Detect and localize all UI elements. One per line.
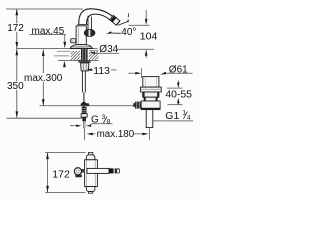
svg-text:172: 172 bbox=[7, 23, 24, 34]
arrow 104 top down bbox=[145, 19, 148, 25]
spout aerator tip bbox=[110, 15, 120, 25]
ball joint bbox=[81, 102, 86, 107]
waste collar bbox=[143, 92, 159, 97]
dimension 172 vertical line bbox=[16, 9, 18, 118]
dimension Ø61 bbox=[128, 68, 192, 78]
plan body bbox=[85, 160, 98, 187]
dimension 104 top ext line bbox=[129, 24, 150, 26]
svg-text:40-55: 40-55 bbox=[165, 89, 192, 100]
dimension max.300 line bbox=[42, 49, 44, 105]
arrow 172 top up bbox=[16, 9, 19, 15]
dimension 172 bottom bbox=[45, 153, 86, 193]
supply rod lower bbox=[83, 92, 84, 102]
arrow max.45 up bbox=[63, 61, 66, 67]
dimension 40-55 bbox=[167, 81, 183, 105]
svg-text:40°: 40° bbox=[121, 27, 136, 38]
joint ellipse bbox=[84, 29, 95, 36]
svg-text:max.45: max.45 bbox=[32, 26, 65, 37]
waste body bbox=[141, 101, 160, 110]
G3/8 pointer arrows bbox=[70, 125, 79, 127]
waste locknut ring bbox=[144, 97, 157, 101]
wire deck top line bbox=[16, 48, 97, 50]
plan bottom nub bbox=[88, 192, 92, 194]
dimension max.45 drop line bbox=[30, 34, 67, 36]
dimension 104 bottom ext line bbox=[117, 48, 154, 50]
plan bottom cap bbox=[86, 187, 95, 192]
hose threaded section bbox=[82, 107, 87, 114]
text G1 1/4 bbox=[165, 110, 191, 123]
lever post bbox=[88, 16, 91, 30]
washer bbox=[78, 60, 90, 62]
wire horizontal pop-up rod bbox=[40, 105, 136, 107]
svg-text:Ø61: Ø61 bbox=[169, 64, 188, 75]
waste flange bbox=[140, 87, 161, 92]
rod clamp bar bbox=[81, 103, 90, 106]
dimension G1 1/4 leader bbox=[163, 120, 193, 122]
svg-text:G1: G1 bbox=[165, 110, 179, 122]
arrow max.300 top up bbox=[42, 50, 45, 56]
plan top nub bbox=[88, 153, 92, 155]
faucet body bbox=[76, 24, 88, 44]
dimension 350 bottom extension line bbox=[7, 117, 83, 119]
deck hatch left bbox=[71, 51, 81, 60]
arrow 104 bottom up bbox=[145, 49, 148, 55]
dimension 40deg leader bbox=[111, 13, 130, 33]
deck hatch right bbox=[57, 51, 98, 60]
arrow 350 bottom down bbox=[16, 111, 19, 117]
arrow 350 top up bbox=[16, 49, 19, 55]
text 172 top bbox=[7, 23, 26, 34]
mounting nut bbox=[81, 63, 89, 71]
waste plug cylinder bbox=[143, 77, 159, 88]
plan left knob bbox=[74, 168, 84, 178]
plan top cap bbox=[86, 155, 95, 160]
dimension G3/8 leader underline bbox=[91, 123, 113, 125]
svg-text:max.180: max.180 bbox=[97, 129, 135, 140]
dimension 104 bottom tail bbox=[145, 55, 147, 59]
dimension Ø34 leader bbox=[93, 51, 120, 54]
arrow max.45 down bbox=[63, 42, 66, 48]
dimension 104 top tail bbox=[145, 10, 147, 20]
hose nut bbox=[81, 114, 87, 118]
waste tailpipe bbox=[146, 110, 153, 128]
arrowheads group bbox=[16, 9, 148, 118]
wire top extension line (faucet top level) bbox=[6, 8, 83, 10]
svg-text:350: 350 bbox=[7, 81, 24, 92]
plan spout bbox=[87, 168, 109, 173]
svg-text:113: 113 bbox=[93, 65, 110, 77]
wire deck bottom line bbox=[58, 59, 98, 61]
supply tube bbox=[82, 71, 85, 92]
pull rod knob bbox=[71, 39, 76, 43]
svg-text:172: 172 bbox=[52, 168, 70, 180]
dimension max.180 bbox=[83, 121, 149, 140]
G3/8 nipple bbox=[82, 117, 86, 121]
spout arch outer bbox=[79, 9, 113, 25]
dimension 113 leader bbox=[89, 69, 93, 71]
svg-text:104: 104 bbox=[140, 30, 158, 42]
text G 3/8 bbox=[91, 114, 111, 126]
svg-text:4: 4 bbox=[187, 115, 191, 122]
threaded shank bbox=[81, 49, 88, 61]
faucet base bbox=[70, 45, 92, 49]
text max.300 bbox=[24, 73, 64, 84]
svg-text:8: 8 bbox=[107, 119, 111, 126]
text 350 bbox=[7, 81, 26, 92]
arrow 172 bottom down bbox=[16, 42, 19, 48]
arrow max.300 bottom down bbox=[42, 99, 45, 105]
spout arch inner bbox=[86, 14, 110, 24]
waste side port bbox=[133, 102, 141, 109]
svg-text:max.300: max.300 bbox=[24, 73, 63, 84]
wire deck break line bbox=[54, 55, 69, 57]
